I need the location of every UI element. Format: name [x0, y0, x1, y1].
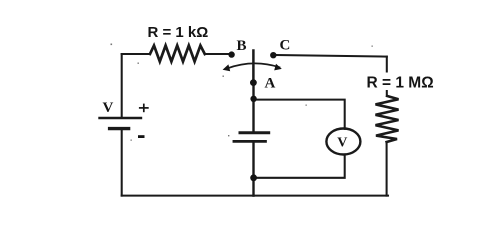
node C [270, 52, 276, 58]
svg-text:R = 1 MΩ: R = 1 MΩ [367, 75, 434, 92]
resistor R1 1 kOhm zigzag [150, 46, 205, 62]
switch arrowhead right [274, 64, 282, 71]
wire junction to voltmeter top [254, 100, 345, 129]
wire node A down to capacitor [252, 83, 254, 133]
switch arrowhead left [223, 64, 231, 71]
label plus terminal [139, 104, 149, 113]
scan specks (decor) [111, 44, 373, 141]
svg-text:C: C [280, 38, 291, 54]
wire right vertical bottom [386, 142, 388, 196]
junction node to voltmeter top [250, 96, 256, 102]
junction node to voltmeter bottom [250, 174, 257, 181]
wire bottom [122, 195, 388, 197]
battery V positive long plate [100, 117, 142, 119]
node A [250, 79, 257, 86]
label R = 1 MOhm [365, 73, 435, 92]
svg-text:A: A [265, 76, 276, 92]
svg-text:V: V [337, 136, 347, 151]
wire top-left horizontal [122, 53, 150, 55]
wire right vertical top [386, 57, 388, 96]
wire left vertical bottom [121, 129, 123, 196]
svg-text:R = 1 kΩ: R = 1 kΩ [148, 24, 209, 41]
svg-text:B: B [237, 38, 247, 54]
switch throw arc [228, 63, 280, 68]
wire resistor R1 to node B [205, 53, 229, 55]
battery V negative short plate [110, 127, 129, 130]
wire junction to voltmeter bottom [254, 155, 345, 178]
label minus terminal [138, 135, 145, 138]
capacitor C top plate [240, 131, 269, 134]
wire capacitor bottom to bottom wire [252, 141, 254, 195]
wire left vertical top [121, 54, 123, 118]
node B [228, 51, 234, 57]
switch lever [252, 51, 255, 83]
voltmeter U1 circle [326, 129, 360, 155]
svg-text:V: V [103, 100, 114, 116]
capacitor C bottom plate [234, 140, 266, 143]
resistor R2 1 MOhm vertical zigzag [376, 96, 399, 142]
wire node C to top-right corner [276, 55, 387, 57]
